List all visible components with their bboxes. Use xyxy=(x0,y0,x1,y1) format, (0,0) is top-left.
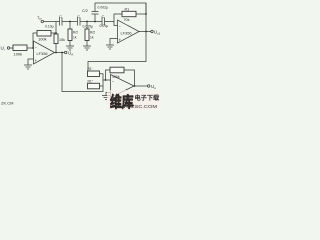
wire fb riser U3 xyxy=(106,70,111,80)
wire xyxy=(136,13,146,15)
svg-text:+: + xyxy=(35,58,38,63)
wire output U1 xyxy=(55,52,65,54)
svg-text:0.01μ: 0.01μ xyxy=(100,24,109,28)
wire seg2 xyxy=(62,21,77,23)
wire fb to output U3 xyxy=(124,70,135,86)
op-amp U3 xyxy=(111,75,135,98)
svg-text:+: + xyxy=(119,38,122,43)
wire to U3 inv xyxy=(103,79,112,81)
svg-text:R1: R1 xyxy=(125,7,130,11)
wire seg3 xyxy=(80,21,101,23)
wire feedback riser xyxy=(33,33,37,48)
resistor R1'' xyxy=(88,83,100,89)
svg-text:R/2: R/2 xyxy=(90,31,95,35)
svg-text:C: C xyxy=(59,14,62,19)
node C/2 branch xyxy=(94,21,96,23)
wire output riser U2 xyxy=(145,3,147,32)
input terminal Ui xyxy=(7,47,9,49)
node fb xyxy=(55,32,57,34)
resistor 15k vertical xyxy=(54,34,58,44)
svg-text:1k: 1k xyxy=(90,36,94,40)
node fb U3 xyxy=(105,79,107,81)
watermark background tint xyxy=(107,90,160,110)
resistor R1 70k xyxy=(122,11,136,16)
svg-text:C: C xyxy=(102,14,105,19)
wire riser top xyxy=(55,22,57,35)
background xyxy=(0,0,160,110)
terminal Uo xyxy=(148,85,150,87)
wire UA drop xyxy=(61,52,63,54)
svg-text:C: C xyxy=(77,14,80,19)
resistor R/2 shunt1 xyxy=(68,29,72,41)
wire xyxy=(27,47,34,49)
svg-text:电子下载: 电子下载 xyxy=(135,94,161,102)
resistor 100k input xyxy=(13,45,27,51)
wire R1 riser xyxy=(114,14,122,22)
wire top line seg1 xyxy=(44,21,60,23)
svg-text:WWW.DZSC.COM: WWW.DZSC.COM xyxy=(110,104,158,109)
node output U1 xyxy=(55,52,57,54)
resistor R/2 shunt2 xyxy=(85,29,89,41)
op-amp U1 LF356 xyxy=(34,41,55,64)
wire xyxy=(55,44,57,53)
svg-text:R1'': R1'' xyxy=(88,79,94,83)
capacitor C1 xyxy=(59,18,61,26)
node output U3 xyxy=(134,85,136,87)
wire join summing xyxy=(100,74,104,86)
wire top loop xyxy=(95,3,146,14)
node R1 out xyxy=(145,13,147,15)
svg-text:R/2: R/2 xyxy=(73,31,78,35)
svg-text:15k: 15k xyxy=(59,38,65,42)
svg-text:0.002μ: 0.002μ xyxy=(98,6,108,10)
test point Tp terminal xyxy=(41,20,43,22)
wire xyxy=(69,22,71,30)
svg-text:ZK.CM: ZK.CM xyxy=(1,101,13,106)
svg-text:100k: 100k xyxy=(14,52,23,57)
wire output U2 xyxy=(139,31,151,33)
wire xyxy=(86,41,88,47)
capacitor C/2 xyxy=(92,13,99,15)
node shunt2 xyxy=(86,21,88,23)
wire U2 out down to summing xyxy=(88,32,146,72)
svg-text:LF356: LF356 xyxy=(37,51,48,56)
resistor R1' xyxy=(88,71,100,77)
terminal Uo1 xyxy=(151,30,153,32)
ground U3 plus input xyxy=(106,93,111,96)
wire xyxy=(69,41,71,47)
svg-text:100k: 100k xyxy=(38,37,47,42)
svg-text:70k: 70k xyxy=(124,18,130,22)
svg-text:0.10μ: 0.10μ xyxy=(45,25,54,29)
ground shunt1 xyxy=(66,45,74,47)
wire xyxy=(86,22,88,30)
ground shunt2 xyxy=(83,45,91,47)
wire xyxy=(94,14,96,21)
svg-text:1k: 1k xyxy=(73,36,77,40)
op-amp U2 LF356 xyxy=(118,20,140,43)
wire seg4 to U2 input xyxy=(105,22,118,26)
resistor 100k feedback U3 xyxy=(110,67,124,73)
capacitor C2 xyxy=(77,18,79,26)
node shunt1 xyxy=(69,21,71,23)
svg-text:0.015μ: 0.015μ xyxy=(83,25,93,29)
svg-text:LF356: LF356 xyxy=(121,31,132,36)
ground U2 plus input xyxy=(110,39,118,46)
capacitor C3 xyxy=(101,18,103,26)
ground U1 plus input xyxy=(28,59,34,65)
svg-text:C/2: C/2 xyxy=(82,9,88,13)
node output U2 xyxy=(145,31,147,33)
svg-text:R1': R1' xyxy=(88,67,93,71)
node inverting input U1 xyxy=(32,47,34,49)
terminal UA xyxy=(65,51,67,53)
resistor 100k feedback U1 xyxy=(37,31,51,37)
wire output U3 xyxy=(134,85,148,87)
wire xyxy=(51,32,56,34)
wire xyxy=(10,47,13,49)
